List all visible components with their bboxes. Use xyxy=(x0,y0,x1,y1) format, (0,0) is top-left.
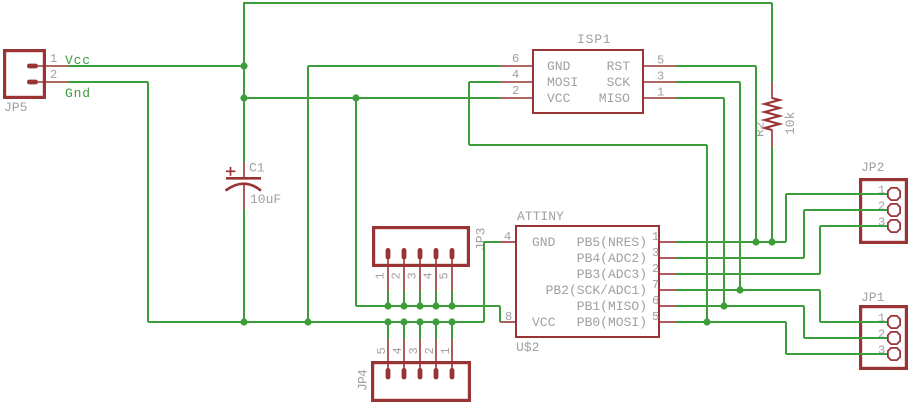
net label Vcc xyxy=(65,53,91,68)
JP1 pin 1 contact xyxy=(888,316,900,328)
junction MISO at (724,306) xyxy=(720,302,727,309)
ATTINY pin number 3 xyxy=(652,246,659,260)
junction SCK at (740,290) xyxy=(736,286,743,293)
svg-text:1: 1 xyxy=(439,347,453,354)
ATTINY right pin 7 lead xyxy=(660,289,675,291)
JP4 pin 4 lead xyxy=(403,339,405,369)
ATTINY pin number 4 xyxy=(504,230,511,244)
connector JP1 body xyxy=(861,307,907,369)
wire MISO to JP1 pin 2 xyxy=(804,337,887,339)
svg-text:SCK: SCK xyxy=(607,75,631,90)
JP4 pin 5 lead xyxy=(387,339,389,369)
wire Vcc from JP5 pin 1 to junction xyxy=(68,65,244,67)
JP4 pin 3 lead xyxy=(419,339,421,369)
wire Gnd from JP5 pin 2 xyxy=(68,81,148,83)
svg-text:3: 3 xyxy=(878,344,885,358)
wire JP4 pin 1 stub xyxy=(451,322,453,339)
wire JP4 pin 3 stub xyxy=(419,322,421,339)
junction Gnd JP4 pin 5 at (388,322) xyxy=(384,318,391,325)
junction Gnd JP4 pin 4 at (404,322) xyxy=(400,318,407,325)
JP3 pin 2 contact xyxy=(402,248,407,260)
svg-text:PB2(SCK/ADC1): PB2(SCK/ADC1) xyxy=(546,283,647,298)
wire R2 bottom to NRES xyxy=(771,147,773,242)
JP4 pin 4 contact xyxy=(402,368,407,380)
JP3 pin number 2 xyxy=(389,272,403,279)
ATTINY pin name PB3(ADC3) xyxy=(577,267,647,282)
ATTINY pin name PB1(MISO) xyxy=(577,299,647,314)
junction Gnd JP4 pin 3 at (420,322) xyxy=(416,318,423,325)
JP2 pin 2 contact xyxy=(888,204,900,216)
ATTINY right pin 3 lead xyxy=(660,257,675,259)
label ISP1 xyxy=(577,32,611,47)
connector JP3 body xyxy=(374,228,469,266)
svg-text:2: 2 xyxy=(878,328,885,342)
JP3 pin 5 lead xyxy=(451,259,453,291)
wire PB3 to JP2 pin 3 xyxy=(820,225,887,227)
JP4 pin 5 contact xyxy=(386,368,391,380)
wire Vcc vertical x=356 to JP3 row xyxy=(355,98,357,306)
JP3 pin 2 lead xyxy=(403,259,405,291)
ISP1 left pin 6 lead xyxy=(500,65,532,67)
JP5 pin 1 contact xyxy=(27,64,38,69)
ISP1 pin number 3 xyxy=(657,70,664,84)
wire MOSI vertical x=707 xyxy=(706,145,708,322)
svg-text:3: 3 xyxy=(657,70,664,84)
capacitor C1 xyxy=(226,161,262,210)
JP2 pin number 2 xyxy=(878,200,885,214)
svg-text:8: 8 xyxy=(505,310,512,324)
label JP5 xyxy=(4,100,27,115)
svg-text:2: 2 xyxy=(878,200,885,214)
wire JP3 pin 4 stub xyxy=(435,291,437,306)
JP2 pin 3 contact xyxy=(888,220,900,232)
wire MISO from ATTINY PB1 pin 6 xyxy=(675,305,804,307)
JP1 pin number 2 xyxy=(878,328,885,342)
JP5 pin 2 contact xyxy=(27,80,38,85)
value 10uF xyxy=(250,192,281,207)
connector ISP1 body xyxy=(533,50,643,113)
JP4 pin 2 contact xyxy=(434,368,439,380)
wire MISO vertical x=724 xyxy=(723,98,725,306)
svg-text:4: 4 xyxy=(421,272,435,279)
ISP1 pin name GND xyxy=(547,59,571,74)
junction Vcc JP3 pin 4 at (436,306) xyxy=(432,302,439,309)
wire Gnd vertical x=308 from ISP1 GND xyxy=(307,66,309,322)
ATTINY pin name GND xyxy=(532,235,556,250)
svg-text:2: 2 xyxy=(389,272,403,279)
net label Gnd xyxy=(65,86,91,101)
ISP1 pin name RST xyxy=(607,59,631,74)
svg-text:JP1: JP1 xyxy=(861,290,885,305)
wire NRES riser x=786 to JP2 pin 1 xyxy=(785,194,787,242)
ATTINY pin name PB5(NRES) xyxy=(577,235,647,250)
connector JP2 body xyxy=(861,180,907,243)
JP5 pin 1 lead xyxy=(38,65,68,67)
JP3 pin 1 contact xyxy=(386,248,391,260)
svg-text:JP4: JP4 xyxy=(356,369,371,391)
ATTINY pin number 8 xyxy=(505,310,512,324)
ISP1 right pin 5 lead xyxy=(644,65,676,67)
JP4 pin 3 contact xyxy=(418,368,423,380)
wire MOSI to JP1 pin 3 xyxy=(786,353,887,355)
wire MOSI from ATTINY PB0 pin 5 xyxy=(675,321,786,323)
JP5 pin number 1 xyxy=(50,52,57,66)
wire SCK to JP1 pin 1 xyxy=(820,321,887,323)
svg-text:MISO: MISO xyxy=(599,91,630,106)
wire JP3 pin 1 stub xyxy=(387,291,389,306)
svg-text:6: 6 xyxy=(652,294,659,308)
JP4 pin number 1 xyxy=(439,347,453,354)
ISP1 right pin 3 lead xyxy=(644,81,676,83)
wire SCK from ISP1 SCK pin xyxy=(676,81,740,83)
svg-text:C1: C1 xyxy=(249,161,265,176)
svg-text:1: 1 xyxy=(878,184,885,198)
wire Vcc top rail xyxy=(243,2,772,4)
wire Gnd vertical x=148 xyxy=(147,82,149,322)
svg-text:1: 1 xyxy=(878,312,885,326)
wire JP3 pin 2 stub xyxy=(403,291,405,306)
ISP1 left pin 2 lead xyxy=(500,97,532,99)
svg-text:1: 1 xyxy=(657,86,664,100)
svg-text:1: 1 xyxy=(652,230,659,244)
JP4 pin 2 lead xyxy=(435,339,437,369)
ISP1 pin name VCC xyxy=(547,91,571,106)
junction MOSI at (707,322) xyxy=(703,318,710,325)
svg-text:4: 4 xyxy=(391,347,405,354)
ATTINY right pin 2 lead xyxy=(660,273,675,275)
label R2 xyxy=(753,121,768,137)
svg-text:4: 4 xyxy=(512,68,519,82)
JP3 pin number 4 xyxy=(421,272,435,279)
label JP4 xyxy=(356,369,371,391)
label JP1 xyxy=(861,290,885,305)
svg-text:Gnd: Gnd xyxy=(65,86,91,101)
JP3 pin number 3 xyxy=(405,272,419,279)
junction Vcc JP3 pin 1 at (388,306) xyxy=(384,302,391,309)
wire RST vertical x=756 xyxy=(755,66,757,242)
svg-text:ISP1: ISP1 xyxy=(577,32,611,47)
ATTINY pin 4 lead xyxy=(500,241,515,243)
JP2 pin number 1 xyxy=(878,184,885,198)
wire MOSI horizontal y=145 xyxy=(469,144,707,146)
JP1 pin 2 contact xyxy=(888,332,900,344)
junction NRES R2 at (772,242) xyxy=(768,238,775,245)
svg-text:5: 5 xyxy=(657,54,664,68)
JP2 pin 1 contact xyxy=(888,188,900,200)
wire Gnd bottom rail y=322 xyxy=(148,321,484,323)
connector JP5 body xyxy=(5,51,45,98)
svg-text:2: 2 xyxy=(50,68,57,82)
svg-text:3: 3 xyxy=(652,246,659,260)
ISP1 pin number 5 xyxy=(657,54,664,68)
ATTINY right pin 1 lead xyxy=(660,241,675,243)
wire Gnd to ISP1 GND pin xyxy=(308,65,500,67)
wire PB4 to JP2 pin 2 xyxy=(804,209,887,211)
svg-text:PB1(MISO): PB1(MISO) xyxy=(577,299,647,314)
wire Vcc JP3 row y=306 xyxy=(356,305,500,307)
svg-text:R2: R2 xyxy=(753,121,768,137)
JP4 pin 1 lead xyxy=(451,339,453,369)
svg-text:1: 1 xyxy=(50,52,57,66)
junction Vcc JP3 pin 2 at (404,306) xyxy=(400,302,407,309)
value 10k xyxy=(783,111,798,135)
connector JP4 body xyxy=(373,363,470,401)
label ATTINY xyxy=(517,209,564,224)
label C1 xyxy=(249,161,265,176)
ATTINY pin name PB4(ADC2) xyxy=(577,251,647,266)
label JP3 xyxy=(474,228,489,251)
wire MOSI from ISP1 MOSI pin xyxy=(469,81,500,83)
svg-text:PB5(NRES): PB5(NRES) xyxy=(577,235,647,250)
ATTINY right pin 6 lead xyxy=(660,305,675,307)
svg-text:3: 3 xyxy=(407,347,421,354)
svg-text:ATTINY: ATTINY xyxy=(517,209,564,224)
svg-text:10k: 10k xyxy=(783,111,798,135)
wire PB3 from ATTINY pin 2 xyxy=(675,273,820,275)
JP3 pin 3 lead xyxy=(419,259,421,291)
JP4 pin 1 contact xyxy=(450,368,455,380)
svg-text:JP2: JP2 xyxy=(861,160,884,175)
ATTINY pin name PB2(SCK/ADC1) xyxy=(546,283,647,298)
wire Vcc to ISP1 VCC pin xyxy=(244,97,500,99)
svg-text:JP5: JP5 xyxy=(4,100,27,115)
ISP1 pin number 6 xyxy=(512,52,519,66)
ISP1 left pin 4 lead xyxy=(500,81,532,83)
wire JP3 pin 3 stub xyxy=(419,291,421,306)
wire Vcc drop to ATTINY VCC pin 8 xyxy=(499,306,501,322)
wire JP4 pin 4 stub xyxy=(403,322,405,339)
svg-text:1: 1 xyxy=(373,272,387,279)
JP2 pin number 3 xyxy=(878,216,885,230)
wire MOSI drop x=786 to JP1 pin 3 xyxy=(785,322,787,354)
svg-text:10uF: 10uF xyxy=(250,192,281,207)
ATTINY pin number 2 xyxy=(652,262,659,276)
junction RST at (756,242) xyxy=(752,238,759,245)
svg-text:7: 7 xyxy=(652,278,659,292)
JP4 pin number 4 xyxy=(391,347,405,354)
JP4 pin number 2 xyxy=(423,347,437,354)
wire RST from ISP1 RST pin xyxy=(676,65,756,67)
JP3 pin 4 lead xyxy=(435,259,437,291)
junction Gnd JP4 pin 2 at (436,322) xyxy=(432,318,439,325)
wire MISO drop x=804 to JP1 pin 2 xyxy=(803,306,805,338)
junction Vcc at (244,66) xyxy=(240,62,247,69)
JP1 pin number 1 xyxy=(878,312,885,326)
IC U$2 ATTINY body xyxy=(516,226,659,337)
ATTINY pin number 5 xyxy=(652,310,659,324)
ATTINY pin number 7 xyxy=(652,278,659,292)
wire MISO from ISP1 MISO pin xyxy=(676,97,724,99)
svg-text:JP3: JP3 xyxy=(474,228,489,251)
junction Gnd ISP drop at (308,322) xyxy=(304,318,311,325)
JP4 pin number 3 xyxy=(407,347,421,354)
JP3 pin 5 contact xyxy=(450,248,455,260)
svg-text:3: 3 xyxy=(405,272,419,279)
svg-text:6: 6 xyxy=(512,52,519,66)
JP5 pin number 2 xyxy=(50,68,57,82)
svg-text:MOSI: MOSI xyxy=(547,75,578,90)
wire SCK from ATTINY PB2 pin 7 xyxy=(675,289,820,291)
ATTINY pin number 6 xyxy=(652,294,659,308)
label JP2 xyxy=(861,160,884,175)
wire JP4 pin 2 stub xyxy=(435,322,437,339)
svg-text:GND: GND xyxy=(532,235,556,250)
ATTINY pin name PB0(MOSI) xyxy=(577,315,647,330)
JP5 pin 2 lead xyxy=(38,81,68,83)
wire JP4 pin 5 stub xyxy=(387,322,389,339)
JP3 pin 1 lead xyxy=(387,259,389,291)
junction Gnd JP4 pin 1 at (452,322) xyxy=(448,318,455,325)
ISP1 pin number 1 xyxy=(657,86,664,100)
junction Gnd C1 at (244,322) xyxy=(240,318,247,325)
JP3 pin 4 contact xyxy=(434,248,439,260)
resistor R2 xyxy=(765,82,780,147)
junction Vcc at (244,98) xyxy=(240,94,247,101)
svg-text:2: 2 xyxy=(423,347,437,354)
wire PB4 riser x=804 to JP2 pin 2 xyxy=(803,210,805,258)
JP4 pin number 5 xyxy=(375,347,389,354)
svg-text:3: 3 xyxy=(878,216,885,230)
wire JP3 pin 5 stub xyxy=(451,291,453,306)
wire Gnd from ATTINY GND pin 4 xyxy=(484,241,500,243)
wire NRES to JP2 pin 1 xyxy=(786,193,887,195)
svg-text:2: 2 xyxy=(512,84,519,98)
wire Gnd C1 bottom drop xyxy=(243,209,245,322)
ISP1 pin name MISO xyxy=(599,91,630,106)
svg-text:4: 4 xyxy=(504,230,511,244)
svg-text:PB3(ADC3): PB3(ADC3) xyxy=(577,267,647,282)
svg-text:5: 5 xyxy=(437,272,451,279)
JP1 pin 3 contact xyxy=(888,348,900,360)
label U$2 xyxy=(516,340,539,355)
JP3 pin number 5 xyxy=(437,272,451,279)
ATTINY pin number 1 xyxy=(652,230,659,244)
junction Vcc at (356,98) xyxy=(352,94,359,101)
JP1 pin number 3 xyxy=(878,344,885,358)
svg-text:2: 2 xyxy=(652,262,659,276)
ISP1 pin number 4 xyxy=(512,68,519,82)
wire MOSI vertical x=469 xyxy=(468,82,470,145)
ATTINY right pin 5 lead xyxy=(660,321,675,323)
svg-text:5: 5 xyxy=(375,347,389,354)
wire Gnd vertical x=484 ATTINY GND xyxy=(483,242,485,322)
svg-text:VCC: VCC xyxy=(532,315,556,330)
svg-text:5: 5 xyxy=(652,310,659,324)
JP3 pin number 1 xyxy=(373,272,387,279)
svg-text:GND: GND xyxy=(547,59,571,74)
wire NRES from ATTINY PB5 pin 1 xyxy=(675,241,786,243)
ATTINY pin 8 lead xyxy=(500,321,515,323)
ISP1 pin name MOSI xyxy=(547,75,578,90)
wire Vcc vertical trunk x=244 xyxy=(243,2,245,162)
svg-text:PB0(MOSI): PB0(MOSI) xyxy=(577,315,647,330)
junction Vcc JP3 pin 3 at (420,306) xyxy=(416,302,423,309)
ISP1 pin name SCK xyxy=(607,75,631,90)
ATTINY pin name VCC xyxy=(532,315,556,330)
svg-text:U$2: U$2 xyxy=(516,340,539,355)
svg-text:PB4(ADC2): PB4(ADC2) xyxy=(577,251,647,266)
junction Vcc JP3 pin 5 at (452,306) xyxy=(448,302,455,309)
wire SCK drop x=820 to JP1 pin 1 xyxy=(819,290,821,322)
wire PB3 riser x=820 to JP2 pin 3 xyxy=(819,226,821,274)
svg-text:RST: RST xyxy=(607,59,631,74)
ISP1 right pin 1 lead xyxy=(644,97,676,99)
svg-text:VCC: VCC xyxy=(547,91,571,106)
ISP1 pin number 2 xyxy=(512,84,519,98)
wire SCK vertical x=740 xyxy=(739,82,741,290)
wire Vcc drop to R2 top xyxy=(771,3,773,82)
JP3 pin 3 contact xyxy=(418,248,423,260)
wire PB4 from ATTINY pin 3 xyxy=(675,257,804,259)
